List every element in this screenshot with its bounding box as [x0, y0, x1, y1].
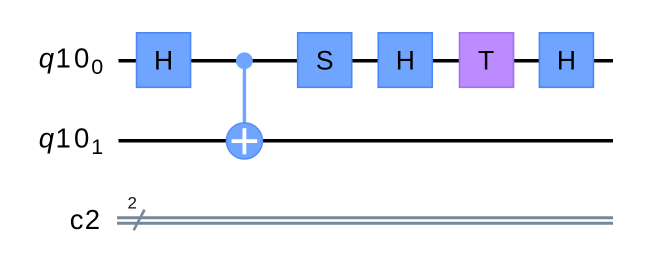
svg-text:1: 1	[56, 122, 71, 153]
svg-text:H: H	[154, 45, 173, 75]
svg-text:q: q	[39, 122, 55, 153]
svg-text:0: 0	[74, 42, 89, 73]
svg-text:H: H	[557, 45, 576, 75]
svg-text:H: H	[396, 45, 415, 75]
svg-text:0: 0	[91, 55, 103, 79]
svg-text:2: 2	[85, 204, 100, 235]
svg-text:0: 0	[74, 122, 89, 153]
svg-text:2: 2	[127, 194, 136, 213]
svg-text:S: S	[316, 45, 334, 75]
svg-text:q: q	[39, 42, 55, 73]
svg-text:1: 1	[91, 135, 103, 159]
svg-text:1: 1	[56, 42, 71, 73]
svg-text:c: c	[70, 204, 84, 235]
svg-text:T: T	[478, 45, 494, 75]
